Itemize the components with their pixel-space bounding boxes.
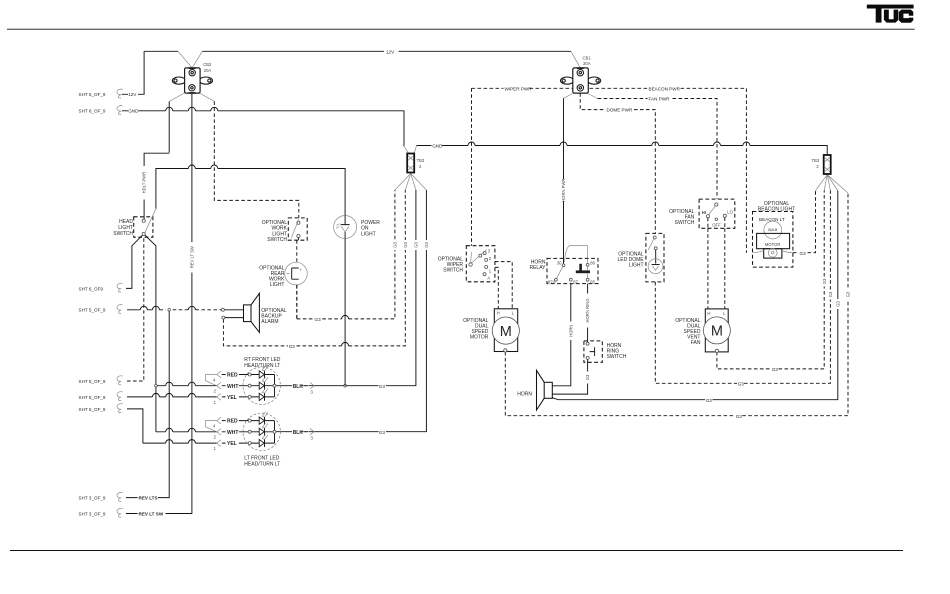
connector SHT 3_OF_9 REV LTS — [79, 492, 158, 501]
svg-text:G3: G3 — [772, 367, 779, 372]
svg-text:30: 30 — [557, 260, 562, 265]
relay HORN RELAY — [529, 258, 598, 284]
svg-text:HORN: HORN — [568, 325, 573, 337]
svg-text:REV LT SW: REV LT SW — [139, 511, 164, 516]
svg-text:HDLT PWR: HDLT PWR — [142, 172, 147, 193]
TUG logo — [867, 5, 914, 23]
connector pins RT headlight — [205, 371, 248, 405]
svg-text:G3: G3 — [379, 384, 386, 389]
wire power light bottom — [344, 238, 346, 385]
svg-text:G3: G3 — [706, 398, 713, 403]
svg-text:SHT 6_OF9: SHT 6_OF9 — [79, 286, 104, 291]
wire REV LTS riser — [158, 311, 169, 498]
svg-text:GND: GND — [128, 109, 139, 114]
svg-text:G3: G3 — [846, 291, 851, 297]
wire relay 87 to horn — [552, 284, 571, 386]
svg-text:LIGHT: LIGHT — [629, 263, 644, 269]
wire 12V bus drop to CB2 — [178, 51, 202, 68]
svg-text:86: 86 — [590, 260, 595, 265]
svg-text:G3: G3 — [738, 381, 745, 386]
label G3 rotated x824 — [822, 277, 827, 287]
switch OPTIONAL FAN SWITCH — [669, 199, 735, 309]
svg-text:REV LT SW: REV LT SW — [189, 246, 194, 268]
svg-text:FAN: FAN — [691, 340, 701, 346]
svg-text:G3: G3 — [403, 242, 408, 248]
svg-text:M: M — [711, 324, 723, 340]
svg-text:BULB: BULB — [768, 228, 778, 232]
svg-text:MOTOR: MOTOR — [470, 335, 489, 341]
wire HORN PWR — [564, 91, 579, 99]
svg-text:YEL: YEL — [227, 395, 237, 401]
wire backup alarm top stub — [224, 309, 243, 311]
wire SHT5 12V feed — [122, 51, 144, 94]
wire switch arm riser to power light — [156, 169, 345, 216]
svg-text:RED: RED — [227, 373, 238, 379]
svg-text:SHT 5_OF_9: SHT 5_OF_9 — [79, 92, 106, 97]
svg-text:WHT: WHT — [227, 430, 238, 436]
svg-text:20A: 20A — [204, 68, 212, 73]
wire 12V top bus — [144, 50, 571, 52]
svg-text:HEAD/TURN LT: HEAD/TURN LT — [244, 462, 280, 468]
connector pins LT headlight — [205, 417, 248, 451]
svg-text:G3: G3 — [379, 430, 386, 435]
label G3 rotated x837 — [835, 299, 840, 309]
connector pin BLK LT — [293, 428, 315, 440]
svg-text:G3: G3 — [393, 242, 398, 248]
svg-text:DOME PWR: DOME PWR — [607, 108, 633, 113]
connector SHT 6_OF9 — [79, 283, 123, 292]
wire WHT RT row — [156, 385, 217, 387]
svg-text:G3: G3 — [315, 317, 322, 322]
wire backup alarm ground chain — [223, 190, 405, 346]
terminal block TB3 2 — [407, 154, 425, 173]
circuit breaker CB1 — [561, 55, 601, 93]
terminal block TB3 3 — [812, 155, 831, 174]
connector SHT 6_OF_9 GND — [79, 106, 140, 115]
lamp OPTIONAL LED DOME LIGHT — [617, 233, 664, 282]
svg-text:20A: 20A — [583, 61, 591, 66]
wire CB2 left output — [169, 91, 189, 102]
wire DOME PWR — [580, 93, 655, 233]
svg-text:SHT 3_OF_9: SHT 3_OF_9 — [79, 511, 106, 516]
svg-text:M: M — [500, 324, 512, 340]
wire CB2 center output REV LT SW — [166, 93, 192, 513]
svg-text:REV LTS: REV LTS — [139, 496, 158, 501]
svg-text:CB1: CB1 — [583, 55, 592, 60]
wire hop GND over x192 — [188, 107, 195, 111]
svg-text:H: H — [707, 311, 710, 316]
wire GND mid rail — [416, 146, 827, 156]
circuit breaker CB2 — [172, 62, 212, 94]
svg-text:G3: G3 — [828, 291, 833, 297]
wire SHT5 backup alarm feed — [127, 309, 152, 311]
svg-text:ALARM: ALARM — [261, 319, 278, 325]
svg-text:YEL: YEL — [227, 441, 237, 447]
svg-text:WIPER PWR: WIPER PWR — [505, 86, 533, 91]
wire WHT LT row — [156, 431, 217, 433]
label G3 rotated x394 — [392, 240, 397, 250]
wire SHT5 dashed to headlight switch — [127, 237, 144, 381]
svg-text:TB3: TB3 — [812, 158, 820, 163]
svg-text:SHT 3_OF_9: SHT 3_OF_9 — [79, 496, 106, 501]
wire hop GNDmid over x471 — [468, 142, 475, 146]
wire hop GNDmid over x746 — [743, 142, 750, 146]
svg-text:SWITCH: SWITCH — [113, 231, 133, 237]
connector SHT 5_OF_9 yel lt — [79, 404, 123, 413]
svg-text:HEAD/TURN LT: HEAD/TURN LT — [244, 363, 280, 369]
svg-text:SHT 5_OF_9: SHT 5_OF_9 — [79, 407, 106, 412]
wire relay 30-86 link — [565, 246, 588, 264]
wire wiper motor ground chain — [505, 193, 848, 416]
node junction y309 x169 — [168, 309, 171, 312]
connector SHT 5_OF_9 yel rt — [79, 392, 123, 401]
svg-text:G3: G3 — [585, 374, 590, 380]
speaker OPTIONAL BACKUP ALARM — [221, 293, 286, 332]
wire hop GNDmid over x655 — [652, 142, 659, 146]
wire dome ground chain — [655, 191, 830, 384]
svg-text:12V: 12V — [128, 92, 137, 97]
wire GND bus left — [122, 111, 404, 146]
svg-text:MOTOR: MOTOR — [765, 242, 781, 247]
wire hop y168 over x214 — [211, 165, 218, 168]
svg-text:LIGHT: LIGHT — [361, 231, 376, 237]
node junction WHT RT — [155, 384, 158, 387]
svg-text:G3: G3 — [835, 301, 840, 307]
svg-text:BLK: BLK — [293, 384, 304, 390]
wire vent fan ground chain — [717, 191, 824, 369]
wire SHT6 OF9 riser — [126, 234, 144, 289]
label G3 rotated x830 — [828, 290, 833, 300]
wire TB3-2 fanout — [395, 174, 427, 191]
wire horn ground chain — [552, 191, 838, 400]
wire YEL RT row — [127, 396, 217, 398]
wire hop GNDmid over x717 — [714, 142, 721, 146]
connector pin BLK RT — [293, 382, 315, 394]
label G3 rotated x415 — [413, 240, 418, 250]
wire headlight switch output riser — [144, 234, 156, 432]
svg-text:G3: G3 — [822, 278, 827, 284]
wire relay 85 to ring switch — [587, 284, 589, 343]
svg-text:HORN PWR: HORN PWR — [561, 179, 566, 202]
svg-text:OFF: OFF — [712, 223, 721, 228]
border bottom rule — [10, 550, 903, 552]
svg-text:A: A — [487, 276, 490, 281]
svg-text:SWITCH: SWITCH — [443, 268, 463, 274]
svg-text:HORN: HORN — [517, 392, 532, 398]
wire hop GND over x214 — [211, 107, 218, 111]
motor OPTIONAL DUAL SPEED VENT FAN — [675, 309, 730, 353]
wire HDLT PWR — [144, 153, 169, 220]
connector SHT 3_OF_9 REV LT SW — [79, 508, 164, 517]
svg-text:WHT: WHT — [227, 384, 238, 390]
wire SHT5 y409 to YEL LT — [127, 409, 143, 443]
connector SHT 5_OF_9 hdlt — [79, 376, 123, 385]
svg-text:12V: 12V — [386, 49, 395, 54]
node junction BLK PWR — [344, 384, 347, 387]
svg-text:RELAY: RELAY — [529, 265, 546, 271]
wire rear work light ground chain — [297, 190, 395, 319]
wire wiper switch outputs — [495, 262, 512, 309]
svg-text:87: 87 — [573, 280, 578, 285]
wire beacon ground chain — [793, 191, 816, 253]
speaker HORN — [517, 370, 552, 410]
LED lamp RT FRONT LED HEAD/TURN LT — [243, 357, 281, 405]
wire hop y309 over x192 — [188, 306, 195, 309]
wire RT BLK row — [276, 190, 416, 386]
wire WIPER-BEACON PWR rail — [472, 88, 747, 252]
connector SHT 5_OF_9 alarm — [79, 305, 123, 314]
svg-text:SWITCH: SWITCH — [267, 237, 287, 243]
wire hop y168 over x192 — [188, 165, 195, 168]
lamp POWER ON LIGHT — [334, 216, 381, 239]
svg-text:SWITCH: SWITCH — [607, 354, 627, 360]
svg-text:SHT 5_OF_9: SHT 5_OF_9 — [79, 395, 106, 400]
svg-text:BLK: BLK — [293, 430, 304, 436]
switch OPTIONAL WIPER SWITCH — [438, 246, 495, 282]
wire YEL LT row — [143, 442, 217, 444]
svg-text:TB3: TB3 — [417, 158, 425, 163]
svg-text:G3: G3 — [800, 251, 807, 256]
svg-text:BEACON PWR: BEACON PWR — [649, 86, 681, 91]
wire ring switch to horn — [552, 359, 587, 394]
svg-text:SWITCH: SWITCH — [675, 220, 695, 226]
motor OPTIONAL DUAL SPEED MOTOR — [463, 309, 519, 352]
wire REV LT SW bottom — [126, 498, 138, 514]
wire hop GNDmid over x563 — [560, 142, 567, 146]
svg-text:SHT 6_OF_9: SHT 6_OF_9 — [79, 109, 106, 114]
wire wiper pwr drop — [471, 88, 473, 245]
wire 12V bus drop to CB1 — [571, 51, 580, 68]
svg-text:GND: GND — [432, 144, 443, 149]
svg-text:G3: G3 — [414, 242, 419, 248]
svg-text:SHT 5_OF_9: SHT 5_OF_9 — [79, 379, 106, 384]
border top rule — [7, 28, 915, 30]
svg-text:87A: 87A — [548, 280, 556, 285]
svg-text:RED: RED — [227, 419, 238, 425]
svg-text:G3: G3 — [289, 344, 296, 349]
wire TB3-3 fanout — [816, 175, 849, 193]
label G3 rotated x426 — [424, 240, 429, 250]
svg-text:HORN RING: HORN RING — [585, 299, 590, 323]
wire FAN PWR — [582, 91, 598, 99]
wire LT BLK row — [276, 190, 427, 432]
svg-text:FAN PWR: FAN PWR — [649, 97, 671, 102]
lamp OPTIONAL REAR WORK LIGHT — [259, 262, 307, 319]
wire TB3-2 feed diagonal — [404, 146, 416, 154]
svg-text:85: 85 — [590, 280, 595, 285]
svg-text:SHT 5_OF_9: SHT 5_OF_9 — [79, 308, 106, 313]
svg-text:HI: HI — [702, 210, 706, 215]
beacon OPTIONAL BEACON LIGHT — [753, 201, 796, 267]
svg-text:BEACON LIGHT: BEACON LIGHT — [758, 207, 795, 213]
switch OPTIONAL WORK LIGHT SWITCH — [262, 218, 307, 263]
svg-text:LIGHT: LIGHT — [270, 282, 285, 288]
wire CB2 right output dashed — [195, 91, 214, 102]
svg-text:CB2: CB2 — [203, 62, 212, 67]
label G3 rotated x405 — [403, 240, 408, 250]
svg-text:H: H — [497, 311, 500, 316]
connector SHT 5_OF_9 12V — [79, 89, 138, 98]
wire hop y309 over x143 — [140, 306, 147, 309]
svg-text:LO: LO — [727, 210, 733, 215]
svg-text:G3: G3 — [736, 414, 743, 419]
svg-text:G3: G3 — [424, 242, 429, 248]
wire hop y309 over x156 — [152, 306, 159, 309]
switch HEAD LIGHT SWITCH — [113, 209, 156, 237]
switch HORN RING SWITCH — [584, 341, 627, 362]
label G3 rotated x848 — [846, 290, 851, 300]
wire hop GND over x169 — [166, 107, 173, 111]
LED lamp LT FRONT LED HEAD/TURN LT — [243, 412, 280, 468]
